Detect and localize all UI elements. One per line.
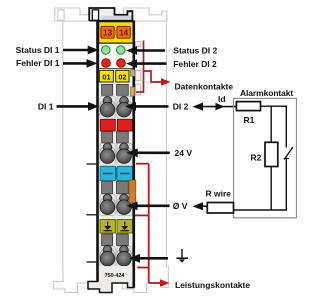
ground insert right [117,220,132,234]
switch lower lead [285,159,287,211]
wire entry B1 [102,132,113,144]
wire entry A1 [102,84,113,95]
LED red DI2 [117,59,126,68]
clamp terminal row2 right [116,146,132,162]
wire R2 lower lead [270,167,272,211]
clamp terminal row4 left [99,248,115,264]
arrow DI 2 [135,105,169,108]
svg-text:Status DI 1: Status DI 1 [16,45,60,55]
svg-text:R1: R1 [244,115,255,125]
svg-text:Fehler DI 2: Fehler DI 2 [173,59,217,69]
label square 13 [101,26,114,38]
ghost module left (adjacent module outline) [54,8,98,293]
arrow Status DI 1 [63,49,89,52]
gold data contact lower on right edge [131,87,135,96]
ghost contact squares on right edge [136,42,141,96]
clamp terminal row3 right [116,197,132,213]
resistor R wire [207,203,233,214]
left edge stub 3 [87,261,97,263]
arrow from R wire to 0 V [200,205,208,207]
ground insert left [100,220,115,234]
arrow Fehler DI 2 [136,62,167,65]
switch lower contact tick [284,158,289,160]
svg-text:24 V: 24 V [175,148,193,158]
current direction marker Id [216,103,225,110]
label square 14 [117,26,130,38]
clamp terminal row1 right [116,99,132,115]
svg-text:Datenkontakte: Datenkontakte [175,82,234,92]
terminal wells row 1 [100,97,116,119]
top profile shading [102,16,132,20]
module foot [88,266,134,293]
arrow Status DI 2 [136,49,165,52]
module body [97,21,135,268]
top profile notch [92,10,98,20]
left edge stub 1 [87,163,97,165]
wire R1 to switch [261,105,288,107]
svg-text:Id: Id [218,94,226,104]
svg-text:Ø V: Ø V [173,201,188,211]
module top profile [89,8,132,21]
clamp terminal row1 left [99,99,115,115]
earth symbol [177,249,189,263]
red arrow Leistungskontakte [160,279,170,287]
terminal wells row 3 [100,195,116,216]
center contact chip [114,30,117,34]
svg-text:750-424: 750-424 [105,273,125,279]
svg-text:13: 13 [103,29,112,38]
resistor R1 [236,102,260,111]
label square 02 [116,70,129,82]
LED red DI1 [102,59,111,68]
terminal wells row 4 [100,247,116,268]
wire entry C1 [102,182,113,194]
wire entry C2 [117,182,129,194]
svg-text:02: 02 [118,72,126,81]
ghost module right (adjacent module outline) [123,8,169,293]
switch upper lead [285,106,287,148]
body top line [89,20,133,22]
module right edge [133,21,136,288]
arrow Fehler DI 1 [63,62,88,65]
svg-text:01: 01 [102,72,110,81]
clamp terminal row2 left [99,146,115,162]
marking block 13/14 [99,22,133,43]
svg-text:R wire: R wire [206,189,232,199]
alarm circuit enclosure [234,98,297,217]
clamp terminal row3 left [99,197,115,213]
wire branch down to R2 [270,106,272,142]
arrow 24 V [137,152,170,155]
wire entry D1 [102,234,113,246]
LED green DI2 [117,46,126,55]
LED green DI1 [102,46,111,55]
LED field background [99,43,133,68]
red insert right [117,120,132,132]
svg-text:DI 2: DI 2 [173,102,189,112]
arrow 0 V [137,205,170,208]
wire entry A2 [117,84,129,95]
cyan insert right [117,167,133,181]
label square 01 [99,70,113,82]
cyan divider [115,168,117,180]
terminal wells row 2 [100,144,116,166]
svg-text:Leistungskontakte: Leistungskontakte [175,280,250,290]
svg-text:Status DI 2: Status DI 2 [173,46,217,56]
cyan insert left [100,167,116,181]
arrow from circuit to DI 2 [199,106,236,108]
svg-text:R2: R2 [251,153,262,163]
red net: data contacts [136,41,162,94]
arrow earth terminal [139,257,168,260]
red arrow Datenkontakte [161,78,171,86]
module left edge [96,21,99,282]
clamp terminal row4 right [116,248,132,264]
arrow DI 1 [57,105,90,108]
left edge stub 2 [87,214,97,216]
svg-text:DI 1: DI 1 [38,102,54,112]
svg-text:14: 14 [119,29,128,38]
orange power jumper contact on right edge [129,180,136,203]
svg-text:Fehler DI 1: Fehler DI 1 [16,58,60,68]
switch blade [284,147,293,160]
gold data contact upper on right edge [131,70,135,77]
svg-text:Alarmkontakt: Alarmkontakt [240,88,293,98]
wire entry D2 [117,234,129,246]
red insert left [100,120,115,132]
red net: power contacts [135,164,161,283]
resistor R2 [265,142,278,166]
wire entry B2 [117,132,129,144]
bottom rail [234,209,288,211]
